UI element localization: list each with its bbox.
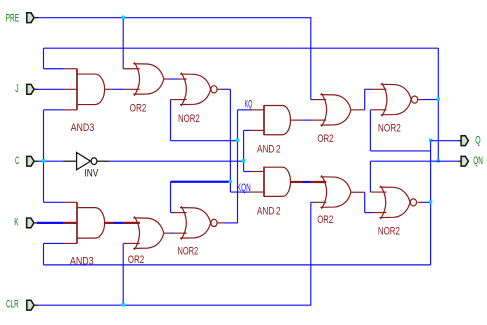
wire net KQN vertical V1	[229, 89, 231, 192]
wire net U10.out - U11.in	[365, 88, 372, 90]
wire INV U7 input stub	[63, 160, 76, 162]
wire pin stub AND3 U4 pin2 (bold)	[63, 222, 77, 224]
wire pin stub AND2 U8 pin1	[251, 109, 265, 111]
node KQN junction (junction dot)	[229, 180, 232, 183]
input port CLR	[27, 300, 34, 310]
and2-gate U8	[257, 105, 291, 155]
input port C	[27, 156, 34, 166]
wire net CLR horizontal	[38, 304, 311, 306]
wire pin stub OR2 U10 pin2	[311, 119, 326, 121]
svg-text:AND 2: AND 2	[257, 205, 281, 217]
svg-text:AND3: AND3	[71, 122, 95, 134]
svg-text:Q: Q	[475, 135, 481, 147]
nor-gate U13 (NOR2)	[378, 186, 417, 238]
wire pin stub NOR2 U11 pin1	[371, 88, 387, 90]
wire pin stub AND3 U1 pin3	[63, 109, 77, 111]
wire net PRE drop to OR2 U10 top input	[310, 17, 312, 99]
wire net QN vertical right	[437, 48, 439, 161]
svg-text:CLR: CLR	[6, 298, 19, 310]
svg-text:INV: INV	[85, 167, 99, 179]
svg-text:C: C	[15, 155, 19, 167]
wire NOR2 U6 output stub	[217, 222, 225, 224]
node QN line junction (junction dot)	[437, 159, 440, 162]
wire pin stub AND2 U8 pin2	[251, 129, 265, 131]
wire pin stub OR2 U2 pin1	[123, 68, 140, 70]
wire net KQN horizontal (bold)	[171, 181, 231, 183]
wire net QN top horizontal	[44, 47, 439, 49]
wire pin stub OR2 U12 pin1 (bold)	[310, 181, 326, 183]
wire net C junction to INV input	[44, 160, 64, 162]
node CLK 4-way junction (junction dot)	[242, 159, 245, 162]
wire OR2 U2 output stub	[164, 78, 170, 80]
wire net KQ vertical V2	[237, 110, 239, 223]
wire pin stub AND3 U1 pin1	[63, 68, 77, 70]
wire net Q corner to AND3 U4	[44, 242, 64, 244]
wire net QN vertical at U13	[369, 161, 371, 192]
svg-text:PRE: PRE	[6, 13, 19, 25]
wire net J	[38, 88, 64, 90]
or-gate U2 (OR2)	[130, 62, 164, 114]
wire net QN to port	[370, 160, 458, 162]
and3-gate U4	[70, 202, 105, 267]
wire CLR port stub	[34, 304, 38, 306]
output port QN	[461, 156, 468, 166]
or-gate U10 (OR2)	[317, 93, 351, 145]
wire net CLR into OR2 U12	[311, 201, 313, 203]
wire net QN drop at left	[43, 48, 45, 69]
wire NOR2 U11 output stub	[418, 99, 422, 101]
wire OR2 U5 output stub	[164, 232, 170, 234]
wire PRE port stub	[34, 17, 38, 19]
nor-gate U6 (NOR2)	[178, 206, 218, 257]
wire pin stub NOR2 U11 pin2	[370, 109, 386, 111]
and2-gate U9	[257, 167, 291, 218]
wire net C upper branch to AND3 U1	[44, 109, 64, 111]
wire net CLR up to OR2 U5 bottom input	[122, 243, 124, 305]
wire pin stub NOR2 U3 pin2	[171, 99, 187, 101]
wire net KQN corner into U6	[171, 212, 175, 214]
wire pin stub OR2 U12 pin2	[313, 201, 326, 203]
wire net U5.out - U6.in	[169, 232, 174, 234]
wire net Q jog horizontal	[370, 150, 430, 152]
wire pin stub NOR2 U3 pin1	[178, 78, 186, 80]
wire net KQN from U3.out	[221, 88, 230, 90]
node CLR / U5 branch (junction dot)	[122, 303, 125, 306]
node KQ junction (junction dot)	[236, 139, 239, 142]
svg-text:OR2: OR2	[317, 214, 333, 226]
input port J	[27, 84, 34, 94]
svg-text:NOR2: NOR2	[378, 225, 400, 237]
wire net C lower branch to AND3 U4	[44, 201, 64, 203]
wire K port stub	[34, 222, 37, 224]
node PRE / U2 branch (junction dot)	[122, 16, 125, 19]
wire net CLK horizontal	[109, 160, 244, 162]
wire net U2.out - U3.in	[169, 78, 178, 80]
wire net KQN corner to AND2 U9	[230, 191, 250, 193]
wire net Q vertical at U11	[369, 110, 371, 151]
wire net C vertical	[43, 110, 45, 202]
svg-text:NOR2: NOR2	[178, 246, 199, 258]
wire pin stub AND3 U4 pin1	[63, 201, 77, 203]
wire net CLK up to AND2 U8	[243, 130, 245, 161]
wire pin stub AND2 U9 pin2	[251, 191, 265, 193]
wire NOR2 U3 output stub	[217, 88, 222, 90]
node QN / U11.out junction (junction dot)	[437, 97, 440, 100]
nor-gate U3 (NOR2)	[178, 73, 217, 125]
wire net U12.out jog down	[364, 192, 366, 212]
wire pin stub NOR2 U13 pin1	[370, 191, 386, 193]
wire net KQN drop to NOR2 U6	[170, 182, 172, 213]
or-gate U5 (OR2)	[128, 216, 164, 266]
input port PRE	[27, 13, 34, 23]
wire net U1.out - U2.in	[113, 88, 123, 90]
node Q / U13.out junction (junction dot)	[429, 200, 432, 203]
wire AND3 U1 output stub	[105, 88, 114, 90]
svg-text:OR2: OR2	[130, 102, 147, 114]
svg-text:J: J	[15, 83, 18, 95]
node C branch junction (junction dot)	[42, 159, 45, 162]
wire pin stub OR2 U5 pin2	[123, 242, 140, 244]
wire pin stub NOR2 U6 pin2	[174, 232, 187, 234]
wire net QN from U11.out	[421, 99, 438, 101]
wire QN port stub	[458, 160, 461, 162]
wire net CLK corner to AND2 U8	[244, 129, 251, 131]
wire NOR2 U13 output stub	[418, 201, 422, 203]
wire net CLK down to AND2 U9	[243, 161, 245, 171]
wire net U10.out jog up	[364, 89, 366, 110]
wire pin stub AND2 U9 pin1	[251, 171, 265, 173]
input port K	[27, 218, 34, 228]
wire J port stub	[34, 88, 38, 90]
wire net C to junction	[38, 160, 43, 162]
inverter U7 (INV)	[77, 153, 99, 180]
svg-text:K: K	[14, 217, 19, 229]
wire pin stub NOR2 U6 pin1	[174, 212, 187, 214]
wire net CLR up to OR2 U12 bottom input	[310, 202, 312, 305]
wire net QN corner to AND3 U1	[44, 68, 64, 70]
wire net PRE into OR2 U10	[311, 99, 313, 101]
wire C port stub	[34, 160, 38, 162]
wire pin stub AND3 U4 pin3	[63, 242, 77, 244]
wire net Q rise at left	[43, 243, 45, 264]
wire Q port stub	[458, 140, 461, 142]
wire pin stub OR2 U10 pin1	[313, 99, 326, 101]
wire pin stub OR2 U2 pin2	[123, 88, 140, 90]
wire net U4.out - U5.in (bold)	[113, 222, 123, 224]
wire net Q vertical right	[430, 141, 432, 265]
wire OR2 U12 output stub	[351, 191, 365, 193]
svg-text:AND3: AND3	[70, 255, 94, 267]
wire net K (bold)	[37, 222, 64, 224]
wire pin stub OR2 U5 pin1 (bold)	[123, 222, 140, 224]
wire net PRE drop to OR2 U2 top input	[122, 17, 124, 69]
wire AND2 U9 output stub (bold)	[291, 181, 304, 183]
wire AND3 U4 output stub (bold)	[105, 222, 114, 224]
wire net KQ horizontal	[171, 140, 238, 142]
wire net U9.out - U12.in (bold)	[303, 181, 311, 183]
wire net U12.out - U13.in	[365, 212, 371, 214]
svg-text:KQ: KQ	[245, 99, 253, 111]
wire net Q to port	[431, 140, 459, 142]
wire net Q from U13.out	[421, 201, 430, 203]
wire net PRE horizontal	[38, 17, 312, 19]
node Q line junction (junction dot)	[429, 139, 432, 142]
wire pin stub NOR2 U13 pin2	[371, 212, 387, 214]
or-gate U12 (OR2)	[317, 175, 351, 226]
svg-text:OR2: OR2	[317, 133, 333, 145]
svg-text:NOR2: NOR2	[178, 113, 200, 125]
wire net KQ corner to AND2 U8	[238, 109, 251, 111]
wire net KQ from NOR2 U6 output	[224, 222, 238, 224]
svg-text:AND 2: AND 2	[257, 144, 281, 156]
wire net KQ vertical at U3	[170, 100, 172, 141]
and3-gate U1	[71, 69, 105, 134]
wire net Q bottom horizontal	[44, 264, 431, 266]
output port Q	[461, 136, 468, 146]
nor-gate U11 (NOR2)	[378, 83, 418, 135]
wire OR2 U10 output stub	[351, 109, 365, 111]
wire net U8.out - U10.in	[302, 119, 311, 121]
svg-text:NOR2: NOR2	[378, 123, 401, 135]
wire INV U7 output stub	[97, 160, 109, 162]
svg-text:QN: QN	[473, 155, 483, 167]
wire AND2 U8 output stub	[291, 119, 303, 121]
wire net CLK corner to AND2 U9	[244, 171, 251, 173]
wire pin stub AND3 U1 pin2	[63, 88, 77, 90]
